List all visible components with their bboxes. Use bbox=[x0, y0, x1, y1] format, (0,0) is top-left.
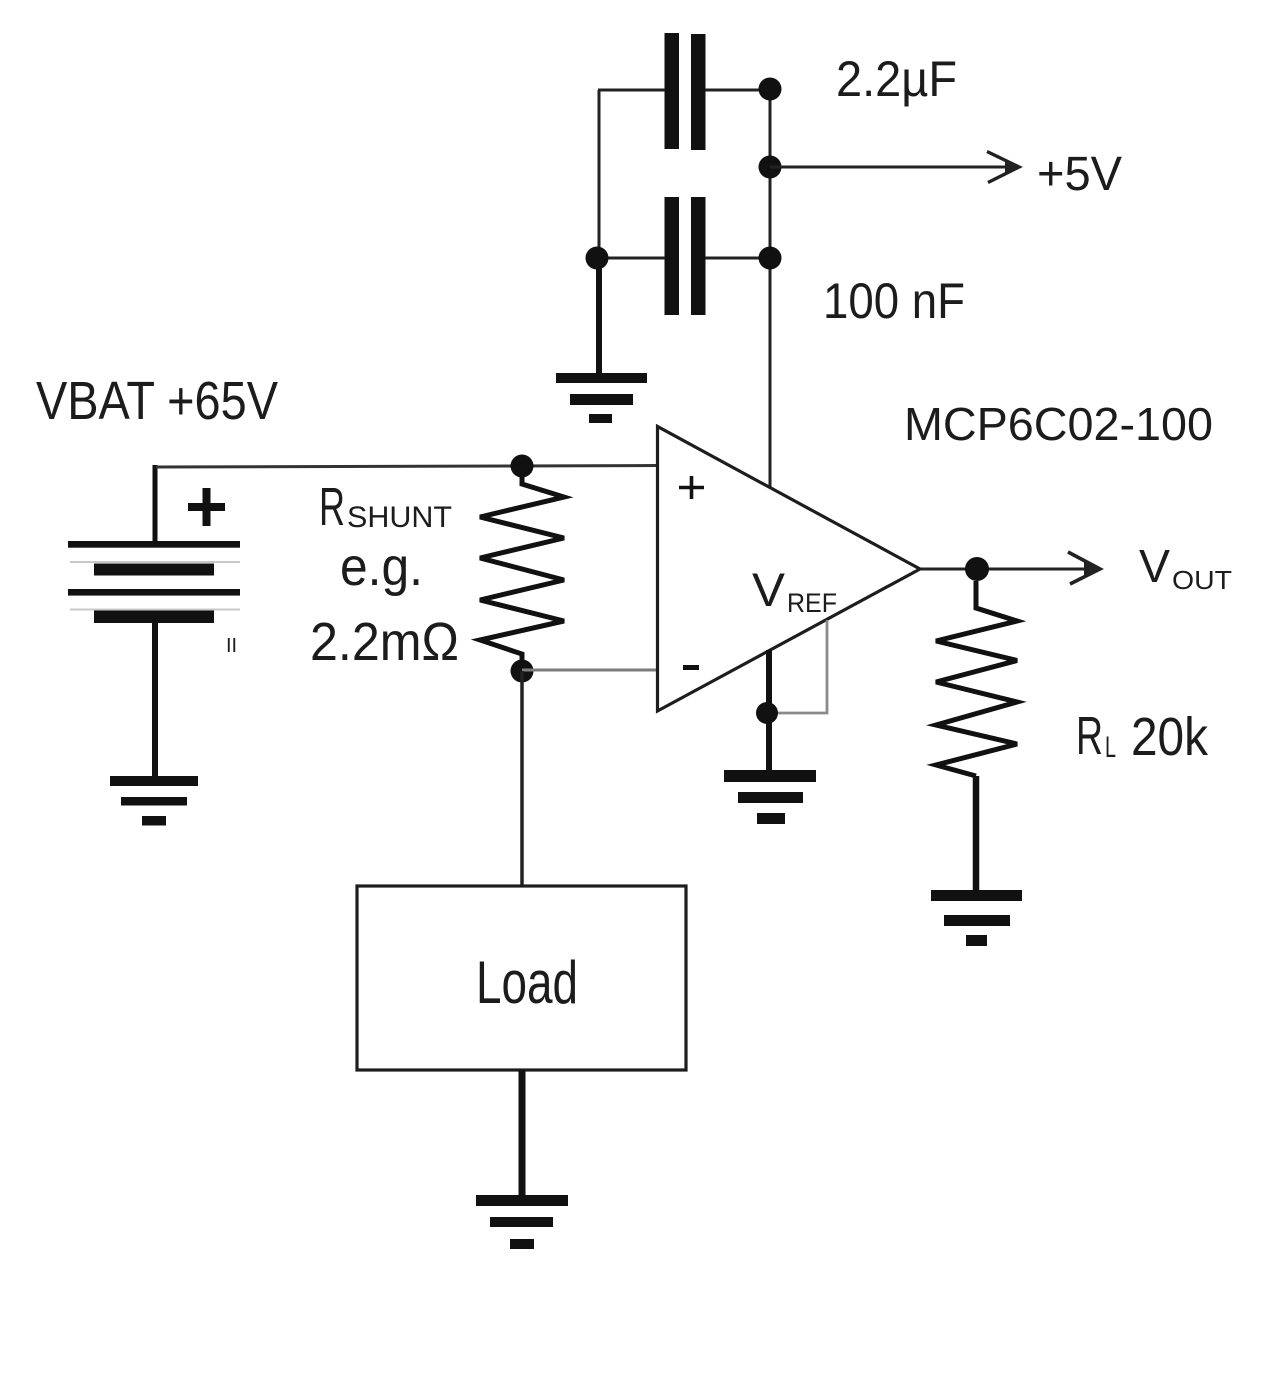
op-amp U1 MCP6C02-100 bbox=[658, 427, 921, 712]
ground G1 (bypass caps) bbox=[556, 258, 647, 423]
wire VREF feedback loop (gray) bbox=[778, 620, 827, 713]
svg-text:VBAT +65V: VBAT +65V bbox=[36, 371, 278, 431]
plus input marker bbox=[679, 476, 704, 499]
battery BT1 bbox=[68, 465, 240, 777]
svg-text:V: V bbox=[1139, 540, 1170, 592]
svg-text:R: R bbox=[319, 477, 345, 537]
wire C1 left lead bbox=[598, 89, 665, 92]
svg-text:R: R bbox=[1076, 706, 1103, 766]
svg-text:SHUNT: SHUNT bbox=[347, 501, 452, 534]
svg-text:20k: 20k bbox=[1131, 707, 1209, 767]
wire +5V bus vertical bbox=[769, 89, 772, 488]
node C2 left bbox=[586, 247, 609, 270]
load box bbox=[357, 886, 686, 1070]
svg-text:MCP6C02-100: MCP6C02-100 bbox=[904, 398, 1213, 450]
wire C1 right lead bbox=[705, 89, 771, 92]
svg-text:Load: Load bbox=[476, 949, 578, 1016]
wire bypass-loop left vertical bbox=[598, 90, 601, 258]
wire +5V arrow shaft bbox=[770, 166, 1012, 169]
svg-text:V: V bbox=[752, 563, 786, 616]
ground G3 (Load) bbox=[476, 1195, 568, 1249]
svg-text:OUT: OUT bbox=[1172, 565, 1232, 595]
svg-text:L: L bbox=[1105, 731, 1116, 764]
svg-text:e.g.: e.g. bbox=[340, 537, 423, 597]
node C1 right bbox=[759, 78, 782, 101]
VOUT arrowhead bbox=[1068, 552, 1102, 584]
svg-text:100 nF: 100 nF bbox=[823, 273, 965, 329]
minus input marker bbox=[683, 665, 699, 670]
wire C2 left lead bbox=[596, 257, 665, 260]
wire op-amp output bbox=[920, 568, 1013, 571]
svg-text:+5V: +5V bbox=[1037, 148, 1122, 201]
ground G2 (battery) bbox=[110, 776, 198, 826]
ground G5 (VREF) bbox=[724, 770, 816, 824]
wire C2 right lead bbox=[705, 257, 771, 260]
capacitor C2 100nF bbox=[665, 197, 706, 315]
wire RL to ground bbox=[973, 776, 980, 897]
node C2 right bbox=[759, 247, 782, 270]
VOUT arrow shaft bbox=[1013, 568, 1090, 571]
+5V arrowhead bbox=[987, 152, 1021, 183]
wire VBAT to +input bbox=[156, 466, 657, 468]
node +5V tap bbox=[759, 156, 782, 179]
wire Load to ground bbox=[519, 1070, 526, 1200]
svg-text:2.2mΩ: 2.2mΩ bbox=[310, 612, 459, 672]
wire RSHUNT bottom to Load bbox=[520, 671, 524, 887]
resistor RL bbox=[936, 581, 1017, 776]
ground G4 (RL) bbox=[931, 890, 1022, 946]
node VREF bbox=[756, 702, 778, 724]
resistor RSHUNT bbox=[480, 476, 564, 662]
svg-text:2.2µF: 2.2µF bbox=[836, 51, 957, 107]
node RSHUNT bottom bbox=[511, 660, 534, 683]
node output bbox=[965, 557, 989, 581]
wire VREF pin stub bbox=[766, 650, 772, 772]
capacitor C1 2.2uF bbox=[665, 33, 706, 150]
svg-text:II: II bbox=[226, 635, 237, 657]
wire -input (gray) bbox=[522, 669, 657, 672]
node RSHUNT top bbox=[511, 455, 534, 478]
svg-text:REF: REF bbox=[787, 588, 837, 618]
